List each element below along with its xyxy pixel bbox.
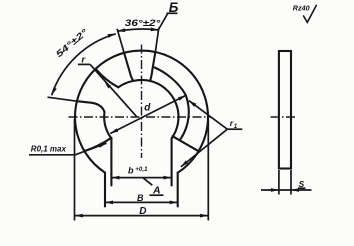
bore right arc <box>150 81 178 138</box>
relief line left <box>84 138 111 152</box>
cut edge extension left <box>48 97 78 101</box>
horizontal center line <box>69 116 212 118</box>
svg-text:36°±2°: 36°±2° <box>125 18 161 28</box>
arrow 36 left <box>117 28 125 32</box>
bore top arc <box>134 79 151 82</box>
arrow B right <box>170 201 178 205</box>
side view rectangle <box>279 51 291 169</box>
right leg inner edge <box>171 138 173 185</box>
arrow S right <box>291 188 299 192</box>
svg-text:A: A <box>152 185 161 197</box>
leader r radius line <box>90 64 137 116</box>
slot right wall <box>150 53 155 81</box>
arrow B left <box>105 201 113 205</box>
dimension arc 54 <box>52 34 116 96</box>
bore lower-left arc <box>104 112 111 138</box>
relief line right <box>173 136 198 150</box>
roughness check mark <box>303 5 316 23</box>
arrow 54 lower <box>52 87 57 95</box>
arrow b left <box>112 176 120 180</box>
arrow r1 lower <box>181 160 188 167</box>
shelf r1 <box>227 128 242 130</box>
dimension arc 36 <box>117 29 159 31</box>
left leg outer edge <box>104 173 106 207</box>
arrow 54 upper <box>108 34 116 38</box>
fillet r curve left <box>96 69 118 87</box>
left leg inner edge <box>110 138 112 185</box>
slot right wall extension <box>155 28 159 53</box>
underline A <box>150 194 164 196</box>
D extension right <box>207 119 209 221</box>
svg-text:Б: Б <box>169 0 179 15</box>
svg-text:S: S <box>299 179 305 189</box>
svg-text:b: b <box>128 166 134 176</box>
arrow 36 right <box>151 27 159 31</box>
arrow r <box>104 81 111 88</box>
d dimension line <box>110 95 186 133</box>
arrow D right <box>200 214 208 218</box>
arrow R01 <box>98 143 106 148</box>
svg-text:d: d <box>144 103 151 114</box>
leader B view <box>159 13 169 30</box>
arrow d upper <box>178 95 186 100</box>
svg-text:В: В <box>137 193 144 203</box>
leader R01 <box>75 143 106 155</box>
svg-text:Rz40: Rz40 <box>293 4 310 13</box>
bore upper-left arc <box>118 81 133 87</box>
outer circle <box>75 51 208 173</box>
shelf R01 <box>29 154 75 156</box>
S extension right <box>290 170 292 195</box>
S extension left <box>278 170 280 195</box>
b dimension line <box>112 177 172 179</box>
leader r1 lower <box>181 129 228 167</box>
r1 groove arc right <box>181 95 189 139</box>
side view center line <box>271 116 298 118</box>
underline B view <box>167 12 178 14</box>
arrow r1 upper <box>189 101 197 107</box>
leader A <box>143 178 152 185</box>
slot left wall extension <box>117 29 124 54</box>
S dimension line <box>261 189 312 191</box>
D extension left <box>74 119 76 221</box>
svg-text:R0,1 max: R0,1 max <box>31 145 67 154</box>
leader r1 upper <box>189 101 228 130</box>
arrow d lower <box>110 128 118 133</box>
arrow b right <box>164 176 172 180</box>
vertical center line <box>141 45 143 159</box>
arrow S left <box>271 188 279 192</box>
svg-text:D: D <box>139 206 146 217</box>
svg-text:+0,1: +0,1 <box>135 166 148 173</box>
svg-text:1: 1 <box>234 123 238 130</box>
cut edge left <box>77 101 105 112</box>
shelf r <box>78 63 90 65</box>
B dimension line <box>105 201 178 203</box>
slot left wall <box>124 54 133 81</box>
right leg outer edge <box>177 173 179 207</box>
D dimension line <box>75 215 208 217</box>
underline S <box>298 187 306 189</box>
fillet r1 curve right <box>155 68 186 96</box>
arrow D left <box>75 214 83 218</box>
